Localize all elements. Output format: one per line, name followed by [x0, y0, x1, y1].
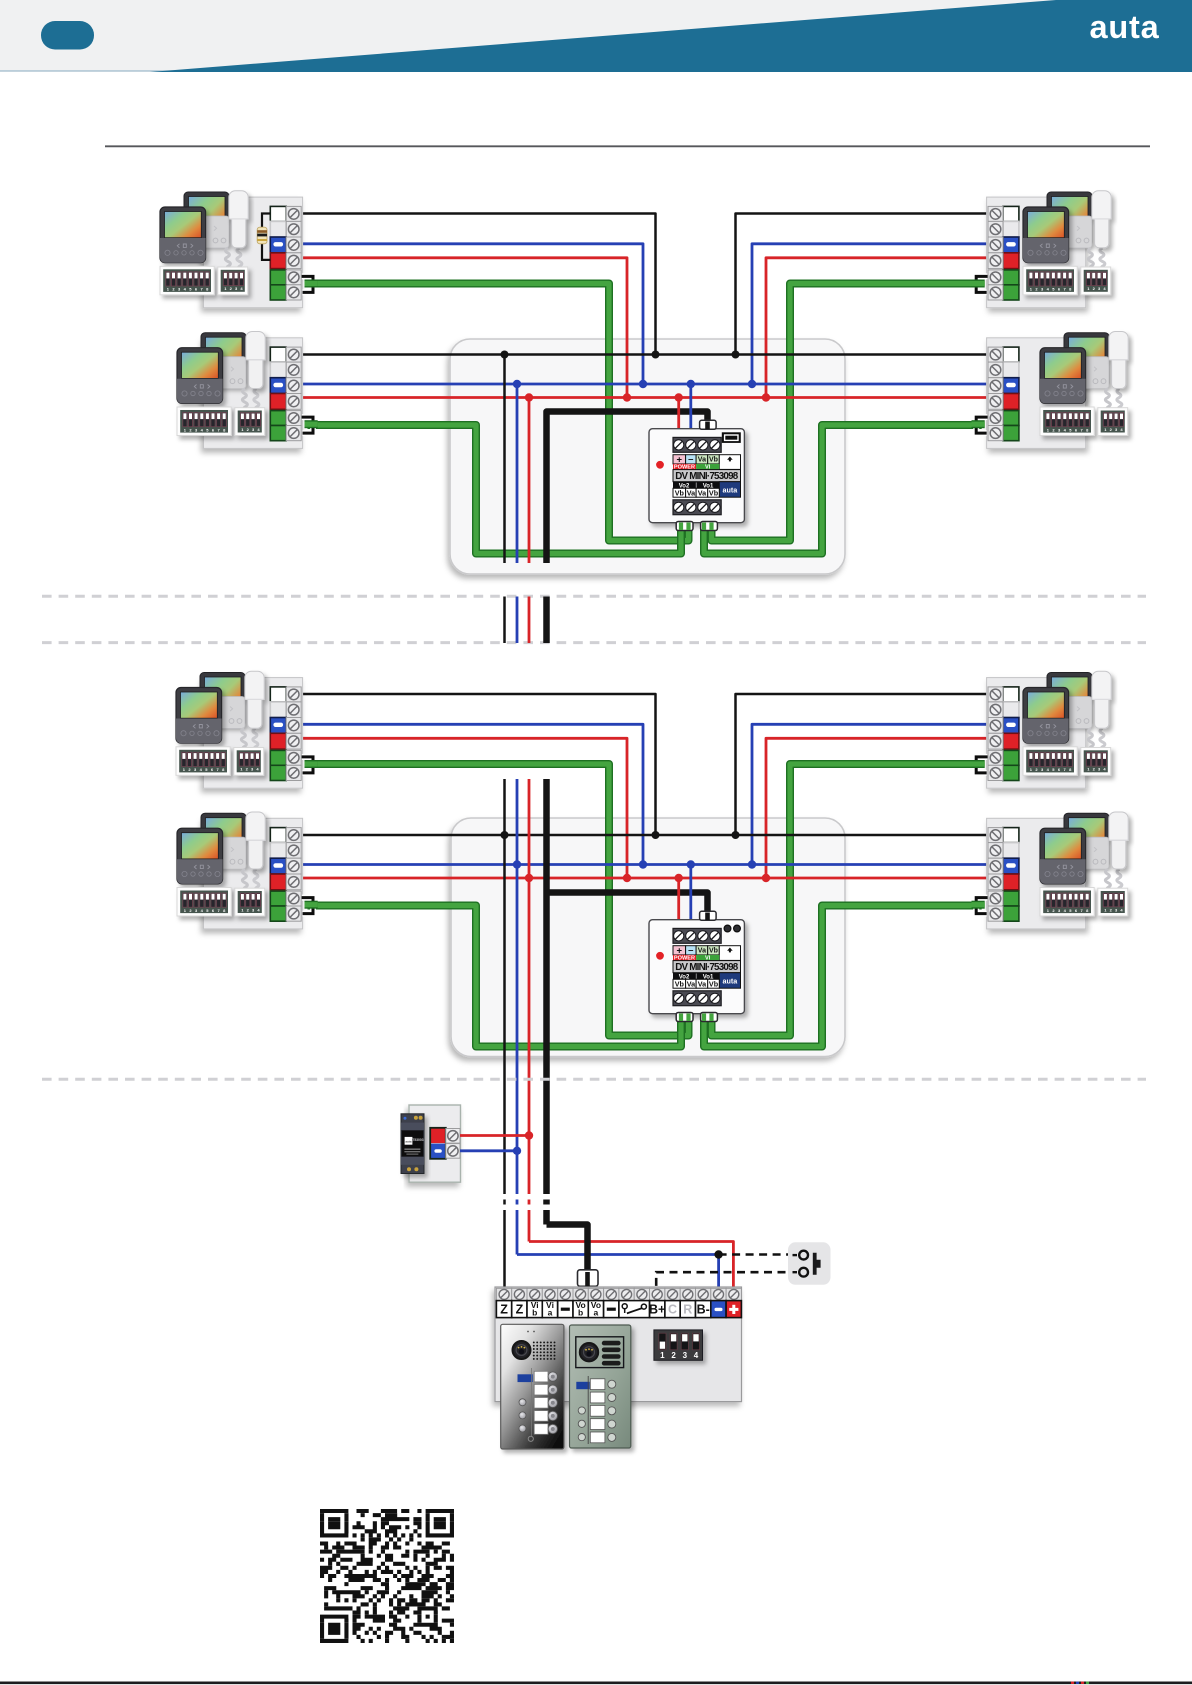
wire red riser to door panel: [529, 1242, 733, 1288]
svg-text:a: a: [594, 1308, 599, 1318]
junction dot blue/button: [714, 1250, 722, 1258]
monitor group G5 panel+terminals: [204, 678, 318, 789]
door release button: [788, 1242, 831, 1285]
svg-text:auta: auta: [405, 1139, 412, 1143]
monitor group G8 panel+terminals (mirrored): [971, 818, 1085, 929]
svg-text:3: 3: [683, 1351, 688, 1360]
video distributor U1 DV MINI 753098: [649, 429, 744, 523]
wire blue bus row2 sec2: [302, 863, 987, 866]
U1 top jumper: [722, 432, 741, 443]
wire blue PSU to riser: [460, 1149, 517, 1152]
wire red monitor G3: [766, 258, 987, 398]
monitor group G5 monitors: [176, 671, 264, 775]
footer rule: [0, 1682, 1192, 1685]
dashed separator line B: [42, 641, 1146, 644]
wire blue monitor G7: [752, 724, 987, 864]
wire green video G8: [704, 906, 982, 1047]
wire blue monitor G3: [752, 244, 987, 384]
monitor group G3 monitors: [1023, 191, 1111, 295]
wire red monitor G5: [302, 738, 627, 878]
svg-text:4: 4: [694, 1351, 699, 1360]
wire black monitor G7: [736, 694, 988, 835]
coax to door panel: [547, 1225, 588, 1272]
monitor group G8 monitors: [1040, 812, 1128, 916]
wire black monitor G1: [302, 214, 656, 355]
monitor group G4 monitors: [1040, 332, 1128, 436]
svg-text:a: a: [548, 1308, 553, 1318]
wire blue to module U1: [689, 384, 692, 430]
riser coax thick black section1: [547, 412, 708, 564]
riser black section1: [503, 355, 506, 564]
power supply PSU panel: [409, 1105, 461, 1182]
riser stubs between separators: [503, 597, 506, 644]
wire black monitor G5: [302, 694, 656, 835]
door panel stainless: [501, 1324, 564, 1449]
PSU DIN module: [401, 1114, 424, 1174]
wire green video G2: [308, 425, 682, 554]
svg-text:2: 2: [671, 1351, 676, 1360]
door station terminal labels: [496, 1301, 511, 1318]
monitor group G6 monitors: [177, 812, 265, 916]
riser red section1: [528, 398, 531, 564]
wire red monitor G7: [766, 738, 987, 878]
wire black bus row2 sec2: [302, 834, 987, 837]
junction dots section2: [501, 831, 509, 839]
header band: [0, 0, 1192, 72]
svg-text:B-: B-: [697, 1302, 710, 1316]
wire red to module U1: [677, 398, 680, 431]
coax entry tab: [578, 1270, 599, 1287]
wire green video G6: [308, 906, 682, 1047]
wire blue monitor G1: [302, 244, 643, 384]
door panel sage: [570, 1325, 631, 1448]
monitor group G3 panel+terminals (mirrored): [971, 197, 1085, 308]
riser blue section1: [516, 384, 519, 563]
monitor group G4 panel+terminals (mirrored): [971, 338, 1085, 449]
riser blue section2: [516, 779, 519, 1194]
monitor group G2 monitors: [177, 332, 265, 436]
dashed separator line A: [42, 595, 1146, 598]
wire blue to module U2: [689, 865, 692, 922]
QR code: [320, 1509, 454, 1643]
wire blue riser to door panel: [517, 1255, 719, 1288]
junction dots section1: [501, 351, 509, 359]
wire green video G3: [712, 284, 982, 541]
svg-text:1: 1: [660, 1351, 665, 1360]
U1 top cable tab: [700, 420, 717, 429]
svg-text:B+: B+: [649, 1302, 665, 1316]
svg-text:b: b: [578, 1308, 583, 1318]
wire red PSU to riser: [460, 1134, 529, 1137]
U2 top pin holes: [724, 925, 731, 932]
coax tee to module U2: [547, 893, 708, 916]
PSU terminals red/blue: [431, 1129, 445, 1144]
svg-text:R: R: [683, 1302, 692, 1316]
riser coax thick section2: [543, 779, 550, 1194]
monitor group G2 panel+terminals: [204, 338, 318, 449]
wire red bus row2 sec2: [302, 877, 987, 880]
dashed wire to door release button: [719, 1253, 789, 1256]
floor distributor box 2: [451, 818, 845, 1057]
floor distributor box 1: [450, 339, 845, 574]
U2 bottom tabs: [676, 1013, 717, 1022]
wire green video G1: [308, 284, 689, 541]
wire green video G7: [712, 764, 982, 1036]
riser black section2: [503, 779, 506, 1194]
svg-text:753003: 753003: [412, 1138, 423, 1142]
header teal wedge: [150, 0, 1192, 72]
riser red section2: [528, 779, 531, 1194]
monitor group G1 panel+terminals: [204, 197, 318, 308]
title rule: [105, 145, 1150, 147]
wire red monitor G1: [302, 258, 627, 398]
dashed wire button to panel: [656, 1272, 799, 1287]
monitor group G1 monitors: [160, 191, 248, 295]
dashed separator line C: [42, 1078, 1146, 1081]
wire green video G4: [704, 425, 982, 554]
svg-text:C: C: [668, 1302, 677, 1316]
wire red bus row2: [302, 396, 987, 399]
wire blue monitor G5: [302, 724, 643, 864]
wire green video G5: [308, 764, 689, 1036]
U1 bottom tabs: [676, 522, 717, 531]
monitor group G7 monitors: [1023, 671, 1111, 775]
svg-text:Z: Z: [516, 1302, 524, 1316]
video distributor U2 DV MINI 753098: [649, 920, 744, 1014]
DIP switch block door station: [654, 1330, 703, 1360]
wire black monitor G3: [736, 214, 988, 355]
header teal pill: [41, 21, 94, 50]
svg-text:auta: auta: [1089, 9, 1159, 45]
svg-text:b: b: [532, 1308, 537, 1318]
monitor group G7 panel+terminals (mirrored): [971, 678, 1085, 789]
svg-text:Z: Z: [500, 1302, 508, 1316]
door station terminal strip screws: [496, 1288, 511, 1300]
door station backing panel: [495, 1287, 742, 1402]
wire black bus row2: [302, 353, 987, 356]
monitor group G6 panel+terminals: [204, 818, 318, 929]
resistor end-of-line G1: [262, 214, 270, 260]
wire red to module U2: [677, 878, 680, 921]
U2 top cable tab: [700, 911, 717, 920]
wire blue bus row2: [302, 383, 987, 386]
